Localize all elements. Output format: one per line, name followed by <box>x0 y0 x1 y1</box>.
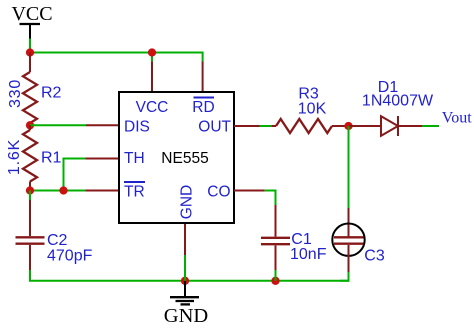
svg-text:R2: R2 <box>41 85 62 102</box>
resistor R1 <box>6 125 62 190</box>
svg-text:10nF: 10nF <box>290 246 327 263</box>
capacitor C1 <box>261 205 327 270</box>
svg-text:OUT: OUT <box>198 118 231 135</box>
wire C2 top <box>29 191 31 201</box>
svg-text:C3: C3 <box>364 248 385 265</box>
junction at U1 VCC pin <box>148 48 156 56</box>
svg-text:10K: 10K <box>298 100 327 117</box>
power flag VCC <box>11 3 52 39</box>
svg-text:DIS: DIS <box>124 118 150 135</box>
wire C3 bottom corner <box>340 272 349 281</box>
svg-text:CO: CO <box>207 183 230 200</box>
wire C2 bottom corner <box>30 270 185 281</box>
U1 pin GND stem <box>184 223 186 255</box>
svg-text:GND: GND <box>164 305 208 327</box>
U1 pin TR stem <box>85 190 119 192</box>
wire GND net <box>184 255 186 281</box>
capacitor C2 <box>16 200 93 270</box>
junction R3/D1/C3 <box>344 122 352 130</box>
junction TH tie <box>59 186 67 194</box>
wire TH net <box>64 159 86 191</box>
U1 pin VCC stem <box>151 62 153 93</box>
svg-text:RD: RD <box>192 99 214 116</box>
resistor R2 <box>7 53 62 126</box>
U1 pin RD stem <box>202 62 204 93</box>
svg-text:NE555: NE555 <box>161 150 208 167</box>
capacitor C3 <box>332 208 385 272</box>
diode D1 <box>349 79 434 136</box>
wire C3 net <box>348 126 350 208</box>
junction C1 <box>271 277 279 285</box>
IC U1 NE555 body <box>119 92 234 223</box>
wire CO net corner <box>265 191 276 206</box>
junction R2/R1/DIS <box>26 121 34 129</box>
svg-text:1N4007W: 1N4007W <box>362 93 434 110</box>
wire bottom GND rail <box>185 280 349 282</box>
wire TR net <box>30 190 85 192</box>
resistor R3 <box>271 86 348 134</box>
svg-text:VCC: VCC <box>11 3 52 25</box>
wire DIS net <box>30 124 86 126</box>
U1 pin OUT stem <box>234 125 260 127</box>
wire OUT net <box>260 125 272 127</box>
wire VCC stem <box>29 39 31 53</box>
svg-text:TR: TR <box>124 183 145 200</box>
svg-text:330: 330 <box>7 79 24 108</box>
svg-text:R1: R1 <box>41 150 62 167</box>
junction GND symbol <box>181 277 189 285</box>
svg-text:1.6K: 1.6K <box>6 139 23 175</box>
wire C1 bottom <box>275 270 277 281</box>
svg-text:470pF: 470pF <box>47 247 93 264</box>
U1 pin TH stem <box>85 158 119 160</box>
svg-text:TH: TH <box>124 150 145 167</box>
U1 pin CO stem <box>234 190 265 192</box>
junction at VCC flag <box>26 48 34 56</box>
wire top VCC rail <box>30 53 203 62</box>
svg-text:GND: GND <box>179 185 196 219</box>
junction R1/C2 <box>26 186 34 194</box>
svg-text:VCC: VCC <box>136 99 169 116</box>
U1 pin DIS stem <box>86 124 119 126</box>
wire Vout <box>422 125 439 127</box>
svg-text:Vout: Vout <box>442 109 472 126</box>
ground symbol GND <box>164 281 208 327</box>
